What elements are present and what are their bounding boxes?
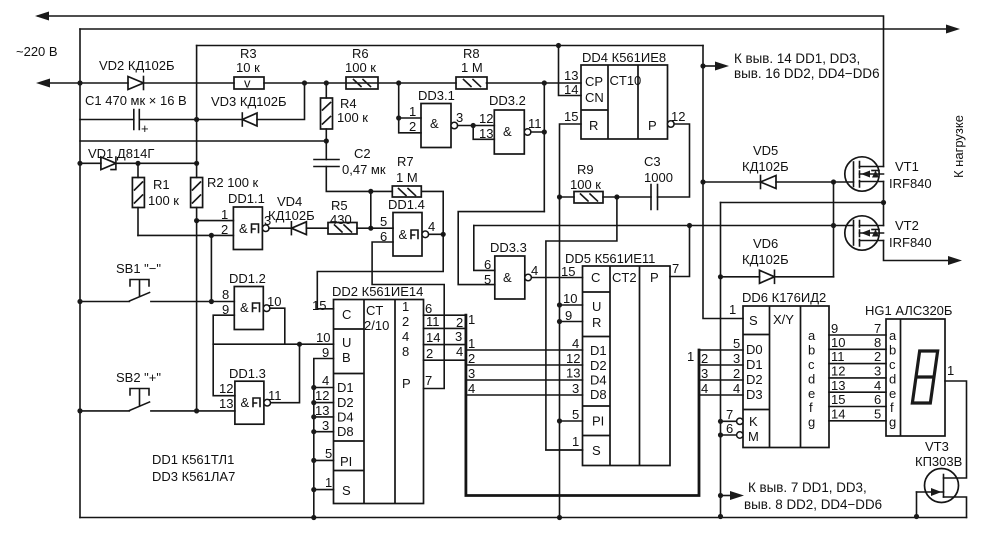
svg-text:&: & [399, 227, 408, 242]
bus line 2 to DD5 D2 [466, 364, 583, 366]
wire DD1.4 output to DD2 clock C [317, 234, 443, 308]
svg-text:КД102Б: КД102Б [268, 208, 315, 223]
svg-text:e: e [808, 386, 815, 401]
svg-text:R9: R9 [577, 162, 594, 177]
svg-text:R: R [592, 315, 601, 330]
wire DD5 S pin1 feed [546, 449, 583, 451]
svg-text:c: c [808, 357, 815, 372]
svg-text:R1: R1 [153, 177, 170, 192]
svg-text:a: a [889, 328, 897, 343]
svg-text:DD1.1: DD1.1 [228, 191, 265, 206]
svg-text:4: 4 [456, 344, 463, 359]
svg-text:1: 1 [409, 104, 416, 119]
svg-text:2: 2 [701, 351, 708, 366]
svg-text:К выв. 14 DD1, DD3,: К выв. 14 DD1, DD3, [734, 51, 860, 66]
wire RC vertical [370, 191, 372, 228]
node mains junction on left rail [77, 80, 82, 85]
output circle DD4 P [668, 121, 675, 128]
svg-text:3: 3 [733, 351, 740, 366]
svg-text:PI: PI [592, 414, 604, 429]
svg-text:DD2 К561ИЕ14: DD2 К561ИЕ14 [332, 284, 423, 299]
arrow output lower [948, 256, 962, 265]
wire R6/R8 node down to DD3.1 inputs [399, 83, 421, 133]
node ground vertical to bottom rail [557, 515, 562, 520]
svg-text:2: 2 [733, 366, 740, 381]
svg-text:DD4 К561ИЕ8: DD4 К561ИЕ8 [582, 50, 666, 65]
wire VD6 line [721, 276, 834, 278]
svg-text:D1: D1 [337, 380, 354, 395]
wire segment f [829, 406, 886, 408]
svg-text:1000: 1000 [644, 170, 673, 185]
svg-text:7: 7 [672, 261, 679, 276]
svg-text:D8: D8 [590, 387, 607, 402]
svg-text:D1: D1 [746, 357, 763, 372]
svg-text:2: 2 [874, 349, 881, 364]
svg-text:g: g [889, 415, 896, 430]
svg-text:e: e [889, 386, 896, 401]
wire segment d [829, 377, 886, 379]
trunk group line (thick U path) [466, 315, 699, 495]
svg-text:&: & [503, 124, 512, 139]
svg-text:13: 13 [479, 126, 493, 141]
svg-text:выв. 16 DD2, DD4−DD6: выв. 16 DD2, DD4−DD6 [734, 66, 880, 81]
node CN drop junction [556, 43, 561, 48]
node main line to DD4 CP junction [542, 80, 547, 85]
inversion circle K [737, 418, 743, 424]
wire DD2 output pin11 to trunk [424, 327, 466, 329]
display HG1 box [886, 319, 945, 436]
svg-text:13: 13 [566, 366, 580, 381]
svg-text:1 М: 1 М [396, 170, 418, 185]
wire DD1.2 pin9 feedback [213, 315, 235, 396]
svg-text:1: 1 [468, 312, 475, 327]
svg-text:4: 4 [733, 381, 740, 396]
svg-text:14: 14 [564, 82, 578, 97]
node C3 left junction [614, 194, 619, 199]
svg-text:P: P [402, 376, 411, 391]
node PI junction [557, 418, 562, 423]
diode VD4 [291, 222, 328, 235]
svg-text:R6: R6 [352, 46, 369, 61]
wire DD1.1 output to VD4 [269, 227, 291, 229]
node PI junction [311, 458, 316, 463]
svg-text:13: 13 [831, 378, 845, 393]
svg-text:VD3 КД102Б: VD3 КД102Б [211, 94, 287, 109]
wire DD2 D2 pin [314, 402, 334, 404]
svg-text:7: 7 [726, 407, 733, 422]
node U junction [557, 302, 562, 307]
svg-text:R: R [589, 118, 598, 133]
IC DD5 K561IE11 box [583, 266, 671, 466]
svg-text:CP: CP [585, 74, 603, 89]
svg-text:a: a [808, 328, 816, 343]
svg-text:8: 8 [874, 335, 881, 350]
node DD1.3 output junction on U line [297, 342, 302, 347]
node R9 left junction [557, 194, 562, 199]
diode VD3 [242, 113, 257, 126]
gate DD3.3 [495, 256, 532, 299]
node ground arrow junction [718, 493, 723, 498]
node SB1 right junction [209, 299, 214, 304]
svg-text:1: 1 [325, 475, 332, 490]
svg-text:10: 10 [563, 291, 577, 306]
svg-text:VD1 Д814Г: VD1 Д814Г [88, 146, 154, 161]
svg-text:15: 15 [831, 392, 845, 407]
svg-text:1: 1 [687, 349, 694, 364]
wire DD2 D1 pin [314, 387, 334, 389]
svg-text:3: 3 [874, 364, 881, 379]
svg-text:b: b [889, 343, 896, 358]
wire DD2 PI pin [314, 459, 334, 461]
node R1 top junction [135, 161, 140, 166]
resistor R5 [328, 223, 371, 235]
svg-text:4: 4 [701, 381, 708, 396]
svg-text:13: 13 [315, 403, 329, 418]
svg-text:10: 10 [267, 294, 281, 309]
svg-text:4: 4 [531, 263, 538, 278]
wire DD6 D2 pin2 from trunk [699, 379, 743, 381]
svg-text:КД102Б: КД102Б [742, 159, 789, 174]
svg-text:12: 12 [831, 364, 845, 379]
svg-text:2: 2 [468, 351, 475, 366]
wire SB1 line [80, 301, 234, 303]
bus line 3 to DD5 D4 [466, 379, 583, 381]
svg-text:DD3.1: DD3.1 [418, 88, 455, 103]
svg-text:15: 15 [561, 264, 575, 279]
node B chain to rail [311, 515, 316, 520]
svg-text:DD1.4: DD1.4 [388, 197, 425, 212]
wire DD5 U pin10 to ground vertical [560, 304, 583, 306]
svg-text:7: 7 [874, 321, 881, 336]
resistor R9 [560, 192, 617, 204]
svg-text:B: B [342, 350, 351, 365]
arrow left on main line [36, 79, 50, 88]
wire main mains line (y=83) [40, 82, 581, 84]
node M rail junction [718, 432, 723, 437]
wire DD1.4 pin6 to DD2 carry P [372, 242, 444, 389]
svg-text:C: C [591, 270, 600, 285]
wire DD3.2 out loop to DD3.3 pin5 [458, 212, 544, 285]
svg-text:D4: D4 [337, 410, 354, 425]
svg-text:8: 8 [222, 287, 229, 302]
wire top mains line A to VT1 drain [38, 16, 884, 167]
svg-text:DD3.3: DD3.3 [490, 240, 527, 255]
svg-text:DD1.2: DD1.2 [229, 271, 266, 286]
wire W1 left rail to R4 bottom [80, 140, 326, 142]
svg-text:K: K [749, 414, 758, 429]
svg-text:14: 14 [831, 407, 845, 422]
wire pin5 into DD1.4 [371, 227, 393, 229]
svg-text:5: 5 [325, 446, 332, 461]
svg-text:P: P [650, 270, 659, 285]
svg-text:U: U [592, 299, 601, 314]
node DD3.2 output junction [542, 129, 547, 134]
svg-text:VT2: VT2 [895, 218, 919, 233]
seven segment digit [912, 351, 937, 403]
wire +V drop to supply arrow and DD6 S [703, 46, 743, 319]
node D8 junction [311, 429, 316, 434]
wire DD2 output pin6 to trunk [424, 314, 466, 316]
svg-text:К выв. 7 DD1, DD3,: К выв. 7 DD1, DD3, [748, 480, 867, 495]
svg-text:4: 4 [322, 373, 329, 388]
node supply arrow junction [700, 63, 705, 68]
svg-text:6: 6 [726, 421, 733, 436]
resistor R3 [234, 76, 264, 91]
svg-text:5: 5 [572, 407, 579, 422]
svg-text:S: S [749, 313, 758, 328]
svg-text:выв. 8 DD2, DD4−DD6: выв. 8 DD2, DD4−DD6 [744, 497, 882, 512]
node D2 junction [311, 400, 316, 405]
svg-text:SB2 "+": SB2 "+" [116, 370, 161, 385]
svg-text:S: S [342, 483, 351, 498]
node VD6 rail junction [718, 274, 723, 279]
IC DD6 K176ID2 box [743, 306, 829, 448]
wire +V vertical x=196 down through divider chain [196, 46, 198, 178]
wire DD2 output pin14 to trunk [424, 344, 466, 346]
svg-text:CT2: CT2 [612, 270, 637, 285]
node SB1 left junction [77, 299, 82, 304]
svg-text:DD1 К561ТЛ1: DD1 К561ТЛ1 [152, 452, 234, 467]
svg-text:3: 3 [456, 110, 463, 125]
svg-text:g: g [808, 415, 815, 430]
resistor R2 [191, 178, 203, 221]
resistor R8 [456, 77, 487, 89]
inversion circle M [737, 432, 743, 438]
svg-text:f: f [890, 400, 894, 415]
svg-text:f: f [809, 400, 813, 415]
wire VT1 source to VT2 drain [883, 203, 885, 226]
svg-text:7: 7 [425, 373, 432, 388]
svg-text:100 к: 100 к [345, 60, 376, 75]
wire segment g [829, 420, 886, 422]
svg-text:X/Y: X/Y [773, 312, 794, 327]
node VD1/R2 top junction [194, 161, 199, 166]
gate DD1.4 [393, 213, 429, 257]
wire DD3.3 output to DD5 C [531, 277, 582, 279]
svg-text:4: 4 [572, 336, 579, 351]
wire segment c [829, 363, 886, 365]
wire R2 bottom to DD1.1 pin1 [197, 220, 234, 222]
svg-text:+: + [141, 121, 149, 136]
gate DD3.2 [494, 110, 531, 154]
svg-text:12: 12 [315, 388, 329, 403]
svg-text:CT10: CT10 [610, 73, 642, 88]
svg-text:VD2 КД102Б: VD2 КД102Б [99, 58, 175, 73]
transistor VT3 [917, 469, 967, 518]
svg-text:10: 10 [316, 330, 330, 345]
svg-text:5: 5 [733, 336, 740, 351]
svg-text:D2: D2 [746, 372, 763, 387]
svg-text:D8: D8 [337, 424, 354, 439]
svg-text:&: & [240, 300, 249, 315]
node R4 bottom junction [324, 138, 329, 143]
node RC node at pin5 [368, 226, 373, 231]
svg-text:5: 5 [484, 272, 491, 287]
svg-text:SB1 "−": SB1 "−" [116, 261, 161, 276]
svg-text:3: 3 [468, 366, 475, 381]
node rail to bottom junction [718, 514, 723, 519]
svg-text:R4: R4 [340, 96, 357, 111]
wire DD4 pin12 P down to C3 [658, 124, 690, 197]
node VD1 left junction [77, 161, 82, 166]
svg-text:DD5 К561ИЕ11: DD5 К561ИЕ11 [565, 251, 655, 266]
svg-text:3: 3 [701, 366, 708, 381]
node DD3.2 input junction [471, 123, 476, 128]
svg-text:&: & [239, 221, 248, 236]
svg-text:R2 100 к: R2 100 к [207, 175, 259, 190]
node VD3 top junction on main line [302, 80, 307, 85]
svg-text:15: 15 [312, 298, 326, 313]
svg-text:К нагрузке: К нагрузке [951, 115, 966, 178]
svg-text:2: 2 [426, 346, 433, 361]
svg-text:D0: D0 [746, 342, 763, 357]
wire DD5 PI pin5 to ground vertical [560, 420, 583, 422]
node R junction [557, 319, 562, 324]
svg-text:4: 4 [402, 329, 409, 344]
wire VT1 source down [883, 182, 885, 203]
svg-text:VT3: VT3 [925, 439, 949, 454]
wire DD2 B pin9 down chain vertical [314, 359, 334, 518]
IC DD4 K561IE8 box [581, 65, 668, 139]
svg-text:C2: C2 [354, 146, 371, 161]
svg-text:100 к: 100 к [148, 193, 179, 208]
gate DD3.1 [421, 104, 458, 148]
wire segment b [829, 348, 886, 350]
wire DD6 M pin6 to rail [721, 434, 737, 436]
wire C1 line (left rail to VD3 to main line) [80, 83, 305, 120]
node VD3 line junction [194, 117, 199, 122]
node main line R6-R8 junction [396, 80, 401, 85]
svg-text:1: 1 [947, 363, 954, 378]
svg-text:DD3.2: DD3.2 [489, 93, 526, 108]
wire R2 node down to SB2 [196, 221, 198, 411]
svg-text:VT1: VT1 [895, 159, 919, 174]
svg-text:DD6 К176ИД2: DD6 К176ИД2 [742, 290, 826, 305]
wire source line to common rail [721, 202, 884, 204]
diode VD5 [761, 176, 777, 189]
svg-text:3: 3 [322, 418, 329, 433]
wire U line (latch net) to DD2 U pin [213, 343, 333, 345]
svg-text:HG1 АЛС320Б: HG1 АЛС320Б [865, 303, 952, 318]
IC DD2 K561IE14 box [334, 300, 424, 504]
svg-text:VD5: VD5 [753, 143, 778, 158]
svg-text:D2: D2 [590, 358, 607, 373]
svg-text:CN: CN [585, 90, 604, 105]
svg-text:12: 12 [566, 351, 580, 366]
node DD3.1 input junction [396, 115, 401, 120]
wire common rail vertical [720, 203, 722, 517]
svg-text:12: 12 [219, 381, 233, 396]
svg-text:DD1.3: DD1.3 [229, 366, 266, 381]
wire gates vertical [833, 182, 835, 277]
wire branch down to SB1 line [210, 235, 212, 301]
wire DD6 D3 pin4 from trunk [699, 394, 743, 396]
arrow ground to ICs [721, 495, 732, 497]
svg-text:5: 5 [874, 407, 881, 422]
node DD1.4 output junction [441, 232, 446, 237]
wire HG1 pin1 to VT3 drain [944, 381, 967, 478]
svg-text:S: S [592, 443, 601, 458]
svg-text:10 к: 10 к [236, 60, 260, 75]
wire DD3.1 out to DD3.2 inputs [458, 126, 495, 140]
svg-text:R8: R8 [463, 46, 480, 61]
wire VD5 line to VT1 gate [703, 181, 854, 183]
wire CN pin drop [559, 46, 582, 96]
svg-text:VD6: VD6 [753, 236, 778, 251]
node VT3 gate rail junction [914, 514, 919, 519]
bus line 1 to DD5 D1 [466, 349, 583, 351]
svg-text:12: 12 [479, 111, 493, 126]
svg-text:D1: D1 [590, 343, 607, 358]
svg-text:10: 10 [831, 335, 845, 350]
wire +V top line from x=196 [197, 45, 703, 47]
svg-text:0,47 мк: 0,47 мк [342, 162, 386, 177]
wire R1 bottom to DD1.1 pin2 [138, 234, 233, 236]
arrow right on line B [946, 25, 960, 34]
capacitor C1 [134, 110, 149, 137]
svg-text:PI: PI [340, 454, 352, 469]
svg-text:C1 470 мк × 16 В: C1 470 мк × 16 В [85, 93, 187, 108]
node: left rail vertical [79, 29, 81, 518]
node D4 junction [311, 414, 316, 419]
svg-text:11: 11 [831, 349, 845, 364]
node SB2 right junction [194, 408, 199, 413]
wire DD4 pin15 R to ground vertical [560, 124, 582, 197]
svg-text:11: 11 [268, 388, 282, 403]
node VT1 gate junction [831, 179, 836, 184]
svg-text:100 к: 100 к [337, 110, 368, 125]
pushbutton SB2 [130, 389, 150, 411]
capacitor C3 [617, 185, 658, 210]
svg-text:CT: CT [366, 303, 383, 318]
wire bottom ground rail [80, 517, 967, 519]
svg-text:8: 8 [402, 344, 409, 359]
resistor R6 [346, 77, 378, 89]
svg-text:2/10: 2/10 [364, 318, 389, 333]
svg-text:M: M [748, 429, 759, 444]
svg-text:R3: R3 [240, 46, 257, 61]
svg-text:11: 11 [426, 314, 440, 329]
svg-text:C: C [342, 307, 351, 322]
transistor VT2 MOSFET [845, 216, 884, 250]
wire DD3.2 output to main line node [531, 83, 544, 212]
svg-text:КП303В: КП303В [915, 454, 962, 469]
gate DD1.2 [234, 287, 270, 330]
svg-text:430: 430 [330, 212, 352, 227]
svg-text:C3: C3 [644, 154, 661, 169]
svg-text:R7: R7 [397, 154, 414, 169]
svg-text:1: 1 [729, 302, 736, 317]
gate DD1.1 [233, 207, 269, 250]
wire line B (output to load, upper) [80, 28, 954, 30]
svg-text:IRF840: IRF840 [889, 176, 932, 191]
bus line 4 to DD5 D8 [466, 394, 583, 396]
wire segment a [829, 334, 886, 336]
node R4 top junction [324, 80, 329, 85]
svg-text:DD3 К561ЛА7: DD3 К561ЛА7 [152, 469, 235, 484]
svg-text:U: U [342, 335, 351, 350]
svg-text:2: 2 [221, 222, 228, 237]
transistor VT1 MOSFET [845, 157, 884, 191]
svg-text:1: 1 [221, 207, 228, 222]
svg-text:9: 9 [831, 321, 838, 336]
svg-text:R5: R5 [331, 198, 348, 213]
wire DD2 S pin [314, 489, 334, 491]
svg-text:2: 2 [409, 119, 416, 134]
wire SB2 line [80, 410, 235, 412]
svg-text:P: P [648, 118, 657, 133]
diode VD1 zener [101, 157, 116, 170]
